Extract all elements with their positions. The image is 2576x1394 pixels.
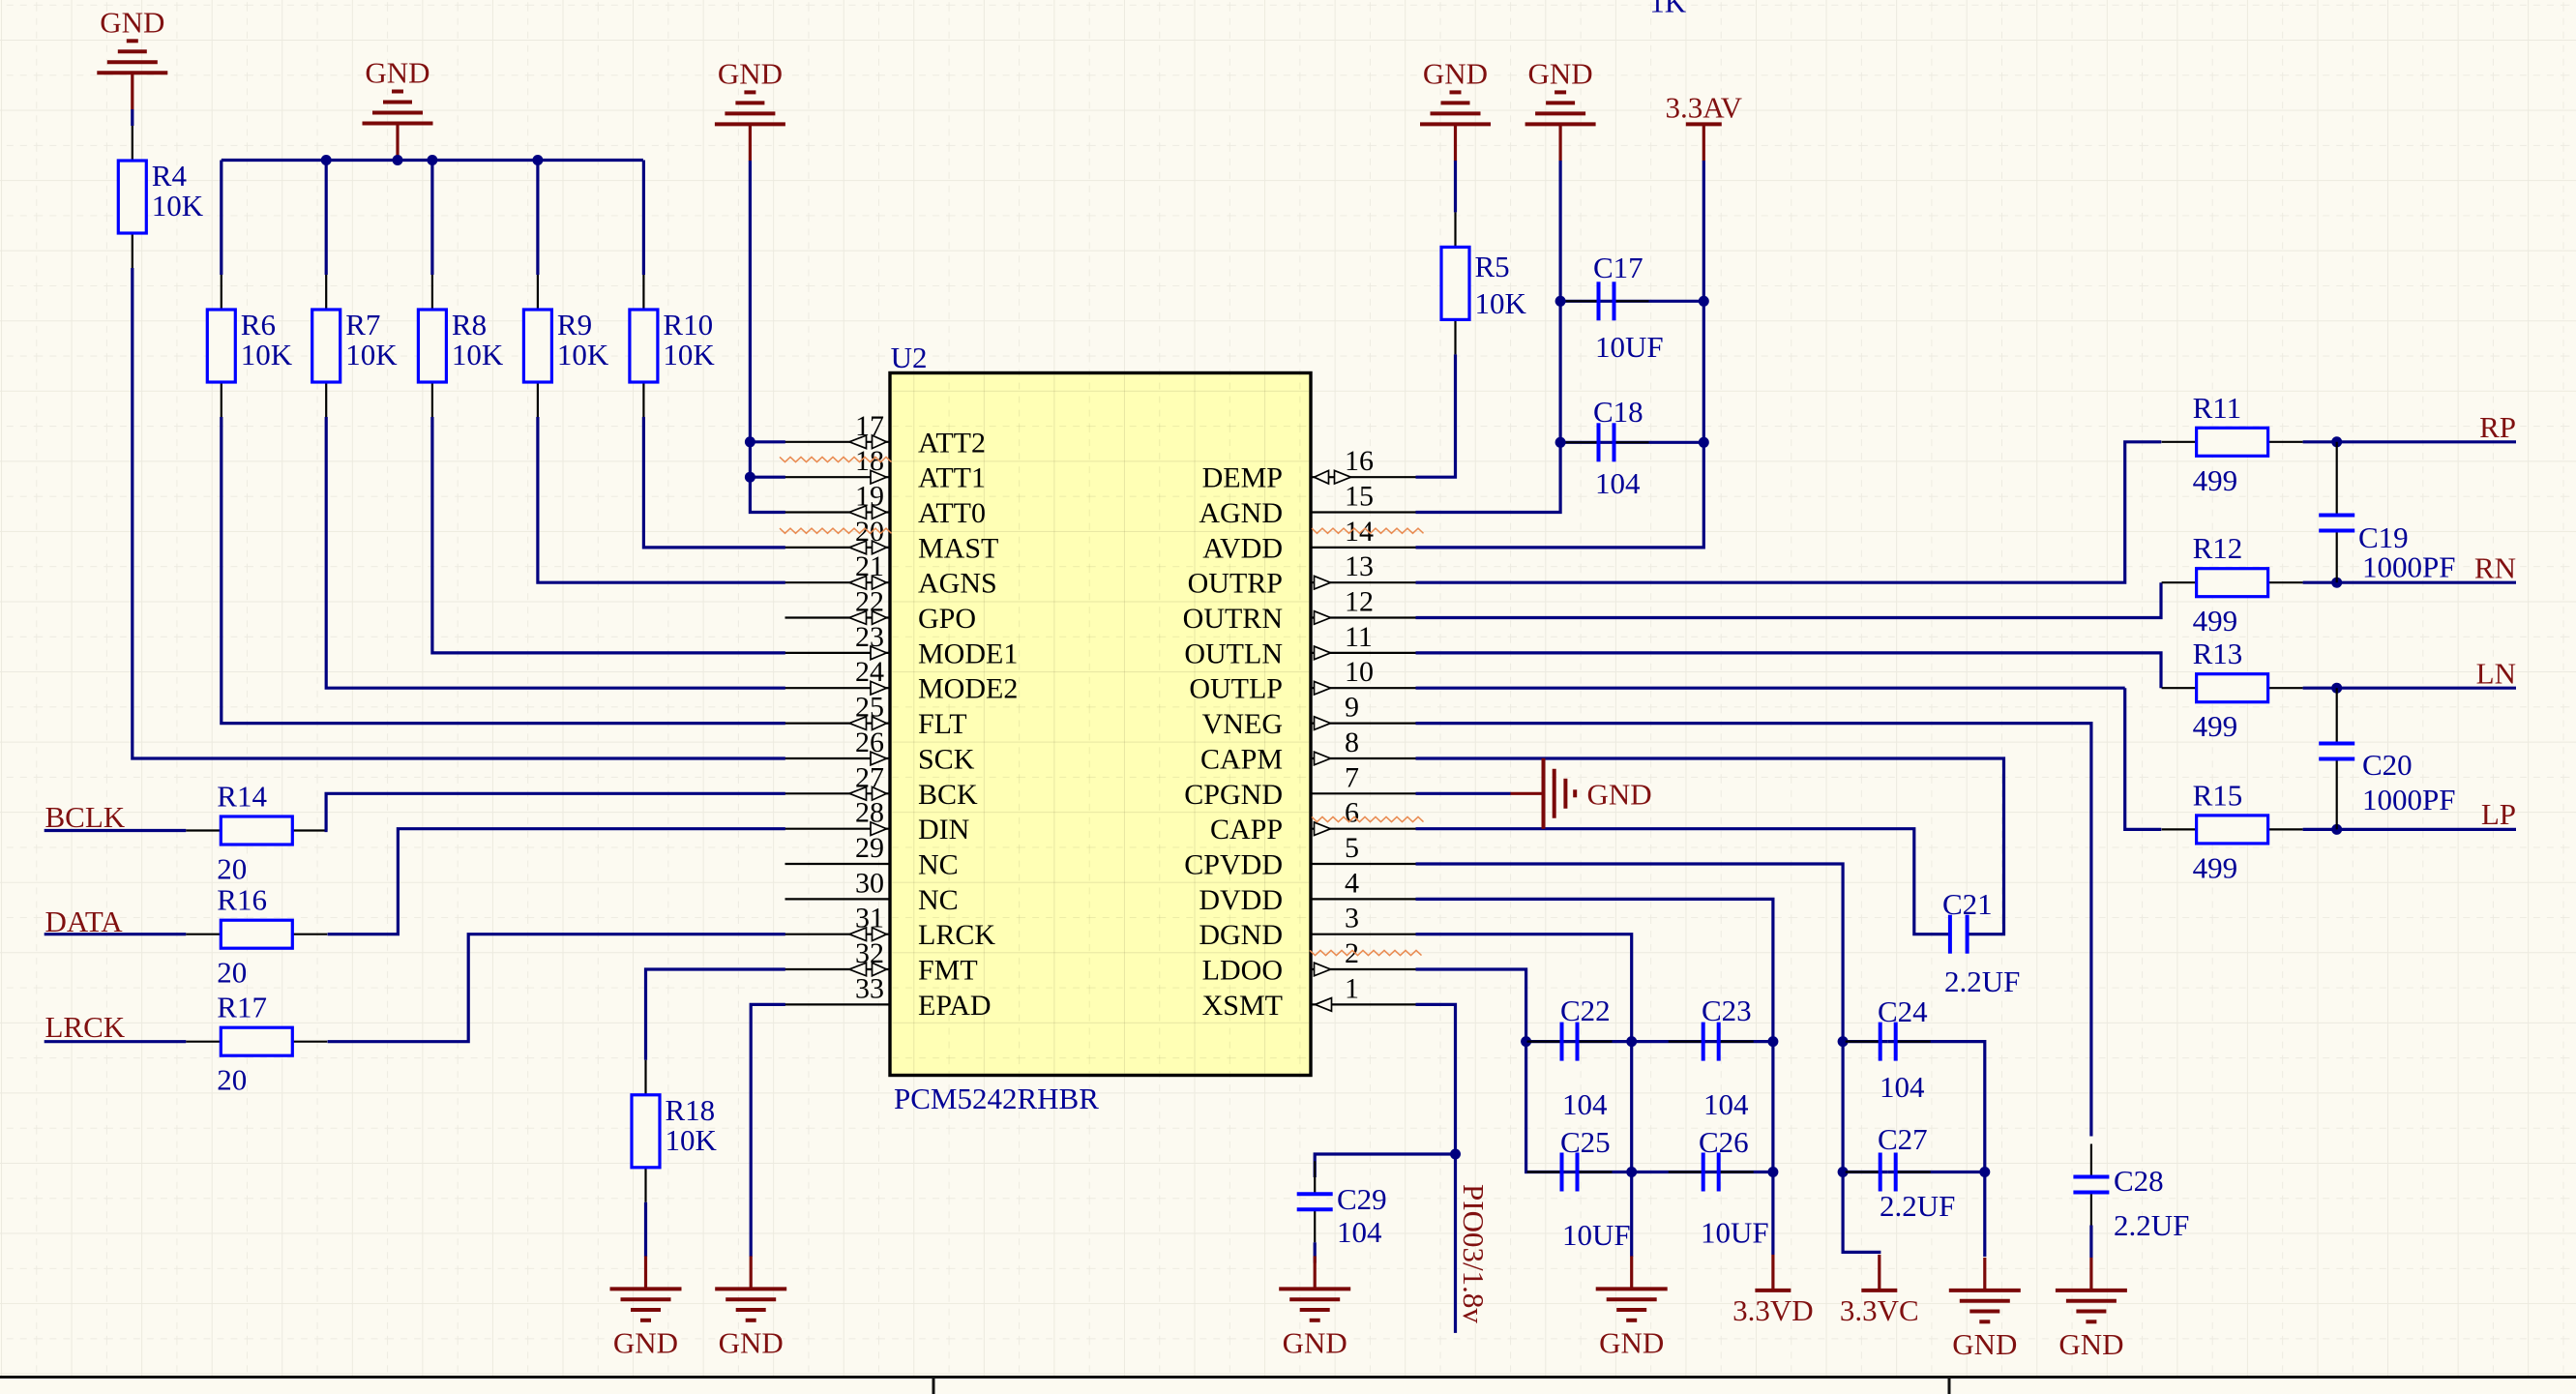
svg-text:10UF: 10UF bbox=[1595, 330, 1664, 364]
wire bus down to R9 bbox=[536, 161, 539, 276]
svg-text:GND: GND bbox=[2058, 1327, 2123, 1361]
op-amp U1 : IC U2 PCM5242RHBR body bbox=[890, 373, 1311, 1076]
svg-text:20: 20 bbox=[217, 1063, 247, 1097]
pin 4 DVDD (right) bbox=[1311, 898, 1416, 900]
svg-text:GND: GND bbox=[718, 56, 783, 90]
svg-text:499: 499 bbox=[2193, 850, 2238, 884]
wire GND1 to R4 bbox=[131, 109, 133, 126]
svg-text:10K: 10K bbox=[452, 338, 504, 371]
svg-text:10K: 10K bbox=[666, 1123, 718, 1157]
svg-text:AGNS: AGNS bbox=[918, 568, 997, 600]
wire R11 to RP bbox=[2303, 440, 2516, 443]
svg-text:10K: 10K bbox=[1475, 286, 1527, 320]
svg-text:NC: NC bbox=[918, 849, 959, 881]
resistor R13 bbox=[2162, 687, 2197, 689]
svg-text:29: 29 bbox=[855, 832, 884, 864]
capacitor C18 bbox=[1564, 441, 1599, 443]
wire pin 5 CPVDD to 3.3VC bbox=[1416, 864, 1880, 1254]
svg-text:3.3VD: 3.3VD bbox=[1732, 1293, 1814, 1327]
svg-text:33: 33 bbox=[855, 972, 884, 1004]
svg-text:26: 26 bbox=[855, 727, 884, 758]
svg-text:R16: R16 bbox=[217, 883, 267, 917]
pin 6 CAPP (right) bbox=[1311, 828, 1416, 830]
junction LN/C20 bbox=[2331, 683, 2342, 694]
capacitor C17 bbox=[1564, 300, 1599, 302]
wire bus down to R10 bbox=[642, 161, 645, 276]
resistor R5 bbox=[1454, 212, 1456, 247]
svg-text:3.3VC: 3.3VC bbox=[1840, 1293, 1919, 1327]
wire R12 to RN bbox=[2303, 581, 2516, 584]
junction C26 right bbox=[1767, 1167, 1778, 1177]
wire 3.3AV to pin 14 AVDD bbox=[1416, 161, 1704, 548]
error squiggle pin 14 bbox=[1312, 528, 1424, 533]
junction C27 left bbox=[1838, 1167, 1849, 1177]
wire R13 to LN bbox=[2303, 687, 2516, 690]
svg-text:CAPM: CAPM bbox=[1200, 744, 1283, 776]
wire pin 4 DVDD to 3.3VD bbox=[1416, 899, 1773, 1255]
svg-text:R14: R14 bbox=[217, 780, 267, 814]
wire GND3 to ATT0 pin 19 bbox=[750, 161, 785, 513]
pin 9 VNEG (right) bbox=[1311, 722, 1416, 724]
sheet border bottom bbox=[0, 1376, 2576, 1379]
junction pin 18 bbox=[745, 472, 755, 483]
svg-text:CPVDD: CPVDD bbox=[1184, 849, 1283, 881]
svg-text:1000PF: 1000PF bbox=[2362, 783, 2455, 816]
svg-text:RP: RP bbox=[2479, 410, 2516, 444]
wire C29 to GND11 bbox=[1314, 1242, 1317, 1262]
resistor R11 bbox=[2162, 441, 2197, 443]
svg-text:R17: R17 bbox=[217, 991, 267, 1024]
pin 17 ATT2 (left) bbox=[785, 441, 891, 443]
wire DATA bbox=[44, 933, 187, 935]
svg-text:7: 7 bbox=[1345, 761, 1359, 793]
pin 22 GPO (left) bbox=[785, 616, 891, 618]
svg-text:RN: RN bbox=[2474, 551, 2516, 585]
svg-text:LN: LN bbox=[2476, 657, 2516, 691]
svg-text:10K: 10K bbox=[345, 338, 398, 371]
svg-text:OUTLP: OUTLP bbox=[1189, 673, 1283, 705]
wire R6 to pin row 25 bbox=[222, 417, 785, 724]
svg-text:6: 6 bbox=[1345, 797, 1359, 829]
resistor R18 bbox=[644, 1060, 646, 1095]
wire R18 to GND4 bbox=[644, 1202, 647, 1257]
svg-text:8: 8 bbox=[1345, 727, 1359, 758]
svg-text:R13: R13 bbox=[2193, 637, 2243, 670]
pin 33 EPAD (left) bbox=[785, 1003, 891, 1005]
wire C19 bottom stub bbox=[2336, 531, 2338, 583]
svg-text:2.2UF: 2.2UF bbox=[1880, 1189, 1955, 1223]
svg-text:C18: C18 bbox=[1593, 395, 1643, 429]
wire R14 to pin 27 BCK bbox=[326, 793, 785, 830]
svg-text:DGND: DGND bbox=[1199, 919, 1283, 951]
svg-text:R4: R4 bbox=[152, 159, 188, 193]
svg-text:2: 2 bbox=[1345, 937, 1359, 969]
svg-text:10K: 10K bbox=[152, 189, 204, 222]
svg-text:LDOO: LDOO bbox=[1202, 955, 1283, 987]
error squiggle pin 2 bbox=[1310, 950, 1422, 955]
wire pin 9 VNEG to C28 bbox=[1416, 724, 2091, 1137]
pin 31 LRCK (left) bbox=[785, 934, 891, 935]
power port 3.3VD bbox=[1755, 1289, 1791, 1292]
pin 7 CPGND (right) bbox=[1311, 792, 1416, 794]
pin 14 AVDD (right) bbox=[1311, 547, 1416, 549]
svg-text:3: 3 bbox=[1345, 903, 1359, 934]
svg-text:LP: LP bbox=[2481, 797, 2516, 831]
svg-text:R15: R15 bbox=[2193, 778, 2243, 812]
svg-text:20: 20 bbox=[217, 956, 247, 990]
resistor R4 bbox=[132, 126, 133, 161]
svg-text:OUTRP: OUTRP bbox=[1188, 568, 1283, 600]
junction C17 left bbox=[1555, 296, 1566, 307]
wire R5 to pin 16 DEMP bbox=[1416, 354, 1456, 477]
wire LRCK bbox=[44, 1040, 187, 1043]
wire C18 row bbox=[1560, 441, 1703, 444]
svg-text:DIN: DIN bbox=[918, 814, 969, 845]
pin 16 DEMP (right) bbox=[1311, 476, 1416, 478]
svg-text:ATT2: ATT2 bbox=[918, 427, 986, 459]
svg-text:C20: C20 bbox=[2362, 748, 2413, 782]
pin 3 DGND (right) bbox=[1311, 934, 1416, 935]
svg-text:C26: C26 bbox=[1699, 1125, 1749, 1159]
junction C27 right / GND9 column bbox=[1979, 1167, 1990, 1177]
ground GND (CPGND) bbox=[1511, 792, 1544, 795]
ground GND6 above R5 bbox=[1420, 92, 1491, 124]
ground GND7 bbox=[1525, 92, 1596, 124]
pin 18 ATT1 (left) bbox=[785, 476, 891, 478]
wire pin 2 LDOO down to C25 row bbox=[1416, 969, 1527, 1172]
capacitor C25 bbox=[1527, 1171, 1562, 1172]
svg-text:5: 5 bbox=[1345, 832, 1359, 864]
wire C19 top stub bbox=[2336, 442, 2338, 516]
capacitor C22 bbox=[1527, 1040, 1562, 1042]
junction C18 right bbox=[1699, 437, 1709, 448]
ground GND1 top-left bbox=[97, 41, 167, 73]
svg-text:GND: GND bbox=[719, 1325, 784, 1359]
wire C27 left bbox=[1843, 1171, 1888, 1173]
wire R8 to pin row 23 bbox=[432, 417, 785, 653]
svg-text:2.2UF: 2.2UF bbox=[2114, 1208, 2189, 1242]
wire C24 right down bbox=[1888, 1042, 1985, 1172]
svg-text:MODE1: MODE1 bbox=[918, 638, 1018, 669]
capacitor C29 bbox=[1314, 1161, 1316, 1194]
svg-text:C25: C25 bbox=[1560, 1125, 1611, 1159]
ground GND8 (DGND) bbox=[1630, 1256, 1633, 1289]
wire pin 8 CAPM to C21 bbox=[1416, 758, 2004, 934]
wire pin 33 EPAD to GND5 bbox=[751, 1004, 785, 1257]
power port 3.3VC bbox=[1861, 1289, 1897, 1292]
pin 28 DIN (left) bbox=[785, 828, 891, 830]
svg-text:R12: R12 bbox=[2193, 531, 2243, 565]
svg-text:GND: GND bbox=[1283, 1325, 1347, 1359]
capacitor C28 bbox=[2090, 1144, 2092, 1177]
wire C20 bottom stub bbox=[2336, 759, 2338, 830]
wire pin 11 OUTLN to R13 bbox=[1416, 653, 2162, 688]
capacitor C24 bbox=[1846, 1040, 1880, 1042]
wire C17 row bbox=[1560, 300, 1703, 303]
svg-text:13: 13 bbox=[1345, 550, 1374, 582]
junction GND2/bus bbox=[393, 155, 403, 165]
junction C18 left bbox=[1555, 437, 1566, 448]
svg-text:AVDD: AVDD bbox=[1202, 532, 1283, 564]
power port 3.3AV bbox=[1686, 122, 1722, 126]
svg-text:FMT: FMT bbox=[918, 955, 978, 987]
svg-text:R18: R18 bbox=[666, 1093, 716, 1127]
svg-text:BCK: BCK bbox=[918, 779, 978, 811]
svg-text:10UF: 10UF bbox=[1701, 1216, 1769, 1250]
ground GND4 below R18 bbox=[644, 1256, 647, 1289]
wire C28 to GND10 bbox=[2089, 1226, 2092, 1259]
junction bus bbox=[427, 155, 437, 165]
wire C23 row bbox=[1632, 1040, 1773, 1043]
svg-text:GND: GND bbox=[613, 1325, 678, 1359]
error squiggle pin 6 bbox=[1312, 816, 1424, 821]
junction bus bbox=[321, 155, 332, 165]
svg-text:FLT: FLT bbox=[918, 708, 967, 740]
capacitor C23 bbox=[1669, 1040, 1703, 1042]
wire bus down to R6 bbox=[220, 161, 222, 276]
svg-text:BCLK: BCLK bbox=[45, 800, 126, 834]
wire R9 to pin row 21 bbox=[538, 417, 785, 582]
resistor R14 bbox=[186, 829, 221, 831]
svg-text:DEMP: DEMP bbox=[1202, 462, 1283, 494]
wire GND2 stem join bbox=[396, 160, 399, 162]
svg-text:DVDD: DVDD bbox=[1199, 884, 1283, 916]
junction LP/C20 bbox=[2331, 824, 2342, 835]
svg-text:9: 9 bbox=[1345, 692, 1359, 724]
pin 27 BCK (left) bbox=[785, 792, 891, 794]
wire pin 6 CAPP to C21 bbox=[1416, 829, 1950, 934]
resistor R12 bbox=[2162, 581, 2197, 583]
svg-text:C27: C27 bbox=[1878, 1122, 1928, 1156]
pin 29 NC (left) bbox=[785, 863, 891, 865]
capacitor C21 bbox=[1948, 915, 1952, 954]
svg-text:C21: C21 bbox=[1942, 887, 1993, 921]
resistor R8 bbox=[431, 275, 433, 310]
pin 13 OUTRP (right) bbox=[1311, 581, 1416, 583]
svg-text:2.2UF: 2.2UF bbox=[1944, 964, 2020, 998]
svg-text:104: 104 bbox=[1703, 1087, 1749, 1121]
ground GND11 below C29 bbox=[1314, 1256, 1317, 1289]
svg-text:PIO03/1.8v: PIO03/1.8v bbox=[1457, 1184, 1491, 1323]
resistor R10 bbox=[642, 275, 644, 310]
svg-text:R7: R7 bbox=[345, 308, 380, 341]
svg-text:OUTRN: OUTRN bbox=[1183, 603, 1283, 635]
wire R16 to pin 28 DIN bbox=[328, 829, 785, 934]
wire C29 branch bbox=[1315, 1154, 1455, 1177]
pin 21 AGNS (left) bbox=[785, 581, 891, 583]
svg-text:23: 23 bbox=[855, 621, 884, 653]
wire down to R15 bbox=[2125, 688, 2162, 829]
pin 19 ATT0 (left) bbox=[785, 511, 891, 513]
junction C24 left bbox=[1838, 1036, 1849, 1047]
svg-text:R11: R11 bbox=[2193, 391, 2242, 425]
svg-text:104: 104 bbox=[1337, 1215, 1382, 1249]
pin 11 OUTLN (right) bbox=[1311, 652, 1416, 654]
pin 32 FMT (left) bbox=[785, 968, 891, 970]
svg-text:499: 499 bbox=[2193, 709, 2238, 743]
wire C27 right bbox=[1888, 1171, 1985, 1173]
wire C24 left bbox=[1843, 1040, 1888, 1043]
wire C26 row bbox=[1632, 1171, 1773, 1173]
svg-text:GND: GND bbox=[100, 5, 164, 39]
wire bus down to R8 bbox=[430, 161, 433, 276]
svg-text:R6: R6 bbox=[241, 308, 276, 341]
svg-text:C22: C22 bbox=[1560, 994, 1611, 1027]
svg-text:GPO: GPO bbox=[918, 603, 976, 635]
wire to pin 17 bbox=[750, 440, 785, 443]
svg-text:12: 12 bbox=[1345, 586, 1374, 618]
wire down to GND9 bbox=[1983, 1172, 1986, 1258]
svg-text:GND: GND bbox=[1528, 56, 1593, 90]
junction C22 left bbox=[1521, 1036, 1531, 1047]
svg-text:15: 15 bbox=[1345, 481, 1374, 513]
resistor R6 bbox=[221, 275, 222, 310]
svg-text:499: 499 bbox=[2193, 604, 2238, 638]
junction C29 branch bbox=[1450, 1149, 1461, 1160]
svg-text:C24: C24 bbox=[1878, 994, 1928, 1028]
svg-text:C17: C17 bbox=[1593, 251, 1643, 284]
svg-text:1: 1 bbox=[1345, 972, 1359, 1004]
svg-text:GND: GND bbox=[1423, 56, 1488, 90]
svg-text:NC: NC bbox=[918, 884, 959, 916]
pin 5 CPVDD (right) bbox=[1311, 863, 1416, 865]
pin 2 LDOO (right) bbox=[1311, 968, 1416, 970]
resistor R7 bbox=[325, 275, 327, 310]
junction C22/C23 bbox=[1626, 1036, 1637, 1047]
svg-text:EPAD: EPAD bbox=[918, 990, 992, 1022]
wire R15 to LP bbox=[2303, 828, 2516, 831]
svg-text:GND: GND bbox=[1952, 1327, 2017, 1361]
svg-text:30: 30 bbox=[855, 867, 884, 899]
svg-text:XSMT: XSMT bbox=[1202, 990, 1283, 1022]
svg-text:R8: R8 bbox=[452, 308, 487, 341]
svg-text:R9: R9 bbox=[557, 308, 592, 341]
svg-text:C23: C23 bbox=[1702, 994, 1752, 1027]
ground GND3 above pins 17-19 bbox=[715, 92, 785, 124]
junction C23 right bbox=[1767, 1036, 1778, 1047]
svg-text:C29: C29 bbox=[1337, 1182, 1387, 1216]
svg-text:ATT0: ATT0 bbox=[918, 497, 986, 529]
svg-text:LRCK: LRCK bbox=[45, 1010, 126, 1044]
capacitor C26 bbox=[1669, 1171, 1703, 1172]
wire R7 to pin row 24 bbox=[326, 417, 785, 688]
svg-text:R5: R5 bbox=[1475, 250, 1510, 283]
svg-text:104: 104 bbox=[1595, 466, 1641, 500]
pin 25 FLT (left) bbox=[785, 722, 891, 724]
svg-text:VNEG: VNEG bbox=[1202, 708, 1283, 740]
svg-text:C28: C28 bbox=[2114, 1164, 2164, 1198]
svg-text:MAST: MAST bbox=[918, 532, 998, 564]
pin 10 OUTLP (right) bbox=[1311, 687, 1416, 689]
resistor R15 bbox=[2162, 828, 2197, 830]
wire R17 to pin 31 LRCK bbox=[328, 934, 785, 1042]
svg-text:ATT1: ATT1 bbox=[918, 462, 986, 494]
wire pin 7 CPGND bbox=[1416, 792, 1511, 795]
svg-text:MODE2: MODE2 bbox=[918, 673, 1018, 705]
svg-text:24: 24 bbox=[855, 656, 884, 688]
resistor R9 bbox=[537, 275, 539, 310]
wire C22 row bbox=[1526, 1040, 1632, 1043]
wire pin 3 DGND down to GND8 bbox=[1416, 934, 1632, 1257]
capacitor C27 bbox=[1846, 1171, 1880, 1172]
junction RP/C19 bbox=[2331, 436, 2342, 447]
svg-text:CAPP: CAPP bbox=[1210, 814, 1283, 845]
svg-text:499: 499 bbox=[2193, 463, 2238, 497]
pin 24 MODE2 (left) bbox=[785, 687, 891, 689]
pin 12 OUTRN (right) bbox=[1311, 616, 1416, 618]
wire pin 1 XSMT down (PIO03/1.8v) bbox=[1416, 1004, 1456, 1333]
svg-text:GND: GND bbox=[1587, 777, 1652, 811]
wire GND7 to pin 15 AGND bbox=[1416, 161, 1561, 513]
wire pin 32 FMT to R18 bbox=[646, 969, 785, 1060]
svg-text:GND: GND bbox=[365, 56, 429, 90]
svg-text:16: 16 bbox=[1345, 445, 1374, 477]
junction C17 right bbox=[1699, 296, 1709, 307]
svg-text:PCM5242RHBR: PCM5242RHBR bbox=[894, 1082, 1099, 1115]
svg-text:AGND: AGND bbox=[1199, 497, 1283, 529]
wire R10 to pin row 20 bbox=[643, 417, 785, 548]
resistor R17 bbox=[186, 1041, 221, 1043]
svg-text:4: 4 bbox=[1345, 867, 1359, 899]
svg-text:28: 28 bbox=[855, 797, 884, 829]
ground GND10 below C28 bbox=[2089, 1258, 2092, 1290]
pin 26 SCK (left) bbox=[785, 757, 891, 759]
svg-text:10UF: 10UF bbox=[1562, 1218, 1631, 1252]
svg-text:GND: GND bbox=[1599, 1325, 1664, 1359]
wire R4 to pin 26 SCK bbox=[133, 268, 785, 758]
svg-text:CPGND: CPGND bbox=[1184, 779, 1283, 811]
wire pin 10 OUTLP right bbox=[1416, 687, 2125, 690]
wire C20 top stub bbox=[2336, 688, 2338, 743]
wire pin 13 OUTRP to R11 bbox=[1416, 442, 2162, 582]
pin 1 XSMT (right) bbox=[1311, 1003, 1416, 1005]
wire bus down to R7 bbox=[325, 161, 328, 276]
error squiggle pin 20 bbox=[780, 528, 892, 533]
pin 20 MAST (left) bbox=[785, 547, 891, 549]
wire C25 row bbox=[1526, 1171, 1632, 1173]
junction bus bbox=[532, 155, 543, 165]
svg-text:11: 11 bbox=[1345, 621, 1373, 653]
junction RN/C19 bbox=[2331, 578, 2342, 588]
svg-text:R10: R10 bbox=[663, 308, 713, 341]
svg-text:10: 10 bbox=[1345, 656, 1374, 688]
svg-text:10K: 10K bbox=[663, 338, 715, 371]
svg-text:104: 104 bbox=[1562, 1087, 1608, 1121]
wire top GND bus bbox=[222, 159, 643, 162]
ground GND5 below EPAD bbox=[750, 1256, 753, 1289]
ground GND9 bbox=[1983, 1258, 1986, 1290]
svg-text:LRCK: LRCK bbox=[918, 919, 995, 951]
svg-text:U2: U2 bbox=[891, 341, 928, 374]
wire BCLK bbox=[44, 829, 187, 832]
pin 23 MODE1 (left) bbox=[785, 652, 891, 654]
wire GND6 to R5 bbox=[1454, 161, 1457, 212]
svg-text:1K: 1K bbox=[1649, 0, 1687, 19]
pin 8 CAPM (right) bbox=[1311, 757, 1416, 759]
svg-text:1000PF: 1000PF bbox=[2362, 550, 2455, 584]
svg-text:SCK: SCK bbox=[918, 744, 975, 776]
svg-text:3.3AV: 3.3AV bbox=[1666, 90, 1743, 124]
resistor R16 bbox=[186, 934, 221, 935]
pin 30 NC (left) bbox=[785, 898, 891, 900]
svg-text:10K: 10K bbox=[557, 338, 609, 371]
pin 15 AGND (right) bbox=[1311, 511, 1416, 513]
junction pin 17 bbox=[745, 436, 755, 447]
wire pin 12 OUTRN to R12 bbox=[1416, 582, 2162, 617]
ground GND2 top bus bbox=[363, 92, 433, 124]
junction C25/C26 bbox=[1626, 1167, 1637, 1177]
svg-text:OUTLN: OUTLN bbox=[1184, 638, 1283, 669]
